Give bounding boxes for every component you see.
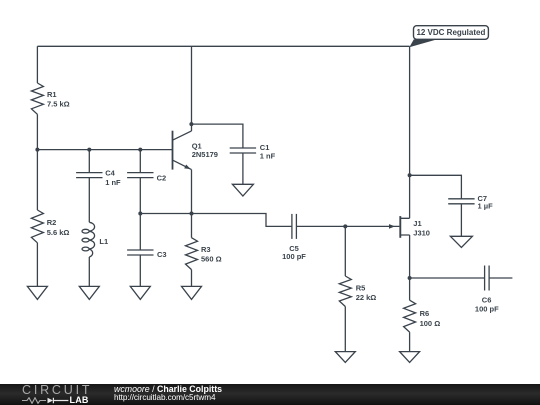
svg-text:R5: R5: [356, 283, 366, 292]
svg-text:1 µF: 1 µF: [478, 201, 494, 210]
svg-text:R2: R2: [47, 218, 57, 227]
svg-text:C2: C2: [157, 174, 167, 183]
svg-text:1 nF: 1 nF: [105, 178, 121, 187]
svg-text:R3: R3: [201, 245, 211, 254]
svg-text:2N5179: 2N5179: [192, 150, 218, 159]
svg-text:12 VDC Regulated: 12 VDC Regulated: [416, 28, 485, 37]
svg-text:100 pF: 100 pF: [475, 304, 499, 313]
svg-text:C3: C3: [157, 250, 167, 259]
svg-text:5.6 kΩ: 5.6 kΩ: [47, 228, 70, 237]
svg-text:7.5 kΩ: 7.5 kΩ: [47, 100, 70, 109]
svg-text:L1: L1: [99, 237, 108, 246]
svg-text:R1: R1: [47, 90, 57, 99]
svg-text:C4: C4: [105, 169, 115, 178]
svg-text:J310: J310: [413, 228, 430, 237]
svg-text:1 nF: 1 nF: [260, 151, 276, 160]
svg-text:560 Ω: 560 Ω: [201, 255, 222, 264]
svg-text:22 kΩ: 22 kΩ: [356, 293, 377, 302]
svg-text:C6: C6: [482, 296, 492, 305]
svg-text:J1: J1: [413, 219, 421, 228]
svg-text:R6: R6: [420, 309, 430, 318]
svg-text:100 Ω: 100 Ω: [420, 319, 441, 328]
svg-text:100 pF: 100 pF: [282, 252, 306, 261]
